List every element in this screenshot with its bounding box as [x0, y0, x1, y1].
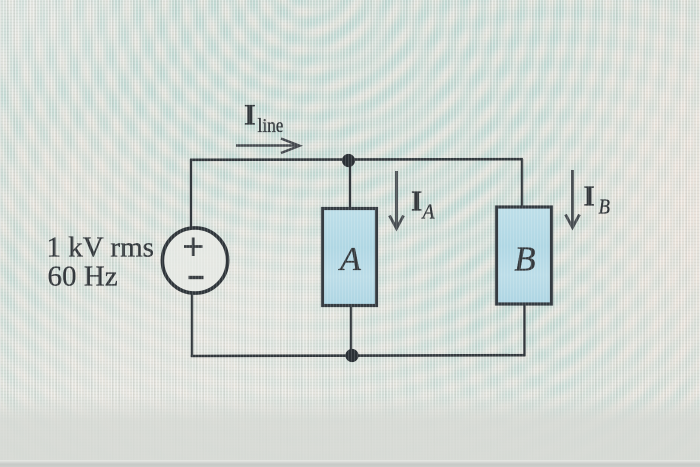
wire top horizontal	[190, 158, 523, 161]
wire load A bottom to bottom node	[350, 304, 352, 356]
source V1 circle (1 kV rms 60 Hz)	[162, 228, 227, 293]
source plus sign	[184, 238, 203, 257]
node junction bottom	[345, 349, 358, 362]
wire node to load A top	[349, 160, 351, 209]
source minus sign	[189, 276, 204, 279]
wire load B bottom to bottom wire	[523, 303, 525, 356]
arrow I line	[236, 139, 300, 154]
load B box	[497, 207, 552, 304]
wire bottom horizontal	[191, 354, 526, 357]
wire left vertical upper (top wire to source +)	[190, 159, 192, 228]
arrow I A	[390, 171, 404, 229]
node junction top	[342, 154, 355, 167]
load A box	[323, 209, 377, 306]
arrow I B	[566, 170, 580, 228]
wire left vertical lower (source - to bottom wire)	[191, 294, 193, 358]
wire top-right corner down to load B	[521, 159, 523, 208]
